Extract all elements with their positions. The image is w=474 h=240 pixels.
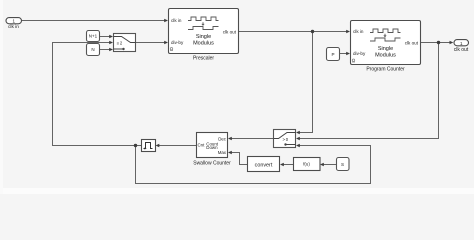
svg-text:div-by: div-by xyxy=(171,40,184,45)
svg-text:clk in: clk in xyxy=(8,24,19,30)
svg-text:N: N xyxy=(91,47,94,52)
svg-text:P: P xyxy=(331,52,334,57)
svg-text:Modulus: Modulus xyxy=(193,41,214,47)
svg-text:S: S xyxy=(341,162,344,167)
svg-text:N+1: N+1 xyxy=(89,34,98,39)
svg-text:convert: convert xyxy=(255,162,273,168)
svg-text:Swallow Counter: Swallow Counter xyxy=(193,160,231,166)
svg-text:Cnt: Cnt xyxy=(198,143,206,148)
svg-text:≥ 2: ≥ 2 xyxy=(117,40,123,45)
svg-text:f(u): f(u) xyxy=(303,162,310,167)
svg-text:Program Counter: Program Counter xyxy=(366,66,405,72)
svg-text:clk out: clk out xyxy=(223,29,237,34)
svg-text:Max: Max xyxy=(218,150,227,155)
svg-text:div-by: div-by xyxy=(353,51,366,56)
svg-text:Dec: Dec xyxy=(218,136,227,141)
svg-text:Single: Single xyxy=(196,34,211,40)
svg-text:Down: Down xyxy=(206,145,218,150)
svg-text:clk in: clk in xyxy=(171,18,182,23)
svg-text:Prescaler: Prescaler xyxy=(193,56,214,62)
svg-text:Single: Single xyxy=(378,46,393,52)
svg-text:> 0: > 0 xyxy=(283,137,289,142)
svg-text:clk in: clk in xyxy=(353,29,364,34)
svg-text:Modulus: Modulus xyxy=(375,53,396,59)
svg-text:clk out: clk out xyxy=(405,40,419,45)
svg-text:clk out: clk out xyxy=(454,47,469,53)
